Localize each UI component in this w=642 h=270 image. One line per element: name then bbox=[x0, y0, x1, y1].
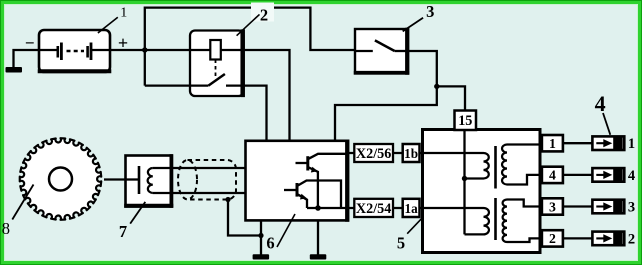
svg-text:−: − bbox=[25, 34, 35, 53]
svg-text:6: 6 bbox=[266, 234, 274, 253]
svg-text:X2/54: X2/54 bbox=[356, 201, 391, 217]
svg-text:2: 2 bbox=[628, 231, 635, 247]
svg-text:2: 2 bbox=[260, 6, 268, 25]
svg-text:4: 4 bbox=[595, 91, 606, 116]
svg-text:X2/56: X2/56 bbox=[356, 146, 391, 162]
svg-text:4: 4 bbox=[628, 168, 635, 184]
svg-text:8: 8 bbox=[2, 219, 10, 238]
svg-text:3: 3 bbox=[549, 199, 556, 214]
svg-text:3: 3 bbox=[426, 2, 434, 21]
svg-text:4: 4 bbox=[549, 168, 556, 183]
svg-text:1b: 1b bbox=[404, 146, 418, 161]
svg-text:1a: 1a bbox=[405, 201, 419, 216]
svg-text:1: 1 bbox=[628, 136, 635, 152]
svg-text:5: 5 bbox=[397, 233, 405, 252]
svg-text:7: 7 bbox=[119, 222, 127, 241]
svg-text:2: 2 bbox=[549, 231, 556, 246]
svg-text:1: 1 bbox=[120, 6, 127, 21]
svg-text:1: 1 bbox=[549, 136, 556, 151]
svg-text:3: 3 bbox=[628, 200, 635, 216]
svg-text:+: + bbox=[118, 33, 128, 53]
svg-text:15: 15 bbox=[458, 113, 472, 129]
